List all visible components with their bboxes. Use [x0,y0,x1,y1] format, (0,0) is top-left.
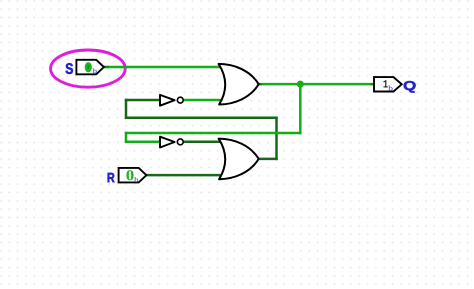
wire net Q feedback short vertical [125,133,128,142]
not-gate INV2 triangle [160,137,175,148]
wire net Qbar feedback into INV1 input [126,99,160,102]
highlight ellipse around pin S [51,50,126,87]
wire INV1 output to OR1 input B (high) [184,99,223,102]
label Q [404,81,416,93]
wire net Qbar feedback short vertical up [125,100,128,118]
value 1 of pin Q [384,80,388,87]
not-gate INV2 bubble [177,139,183,145]
wire net Q feedback into INV2 input [126,141,160,144]
wire R to OR2 input B (net R, low) [146,174,223,177]
wire S to OR1 input A (net S, high) [104,66,223,69]
input pin R pentagon [119,168,147,183]
not-gate INV1 bubble [177,97,183,103]
wire INV2 output to OR2 input A (low) [184,141,223,144]
wire OR2 output horizontal (net Qbar, low) [258,158,276,161]
not-gate INV1 triangle [160,95,175,106]
subscript b of pin S value [93,69,97,74]
subscript b of pin Q value [388,86,392,91]
value 0 of pin S (green, nearly solid) [85,62,92,72]
wire OR1 output to pin Q (net Q, high) [258,83,373,86]
wire net Q vertical from junction down [299,84,302,133]
pin S output port nub [105,66,110,68]
junction node Q [297,81,304,88]
or-gate OR1 (top) [219,64,259,105]
subscript b of pin R value [134,177,138,182]
wire net Q feedback horizontal [126,132,300,135]
label S [66,63,73,74]
or-gate OR1 output port nub [259,83,262,85]
value 0 of pin R [126,170,133,180]
input pin S pentagon [76,60,104,75]
or-gate OR2 (bottom) [219,139,259,180]
pin Q input port nub [371,83,374,85]
label R [108,173,115,182]
wire net Qbar feedback horizontal [126,117,277,120]
output pin Q pentagon [374,77,402,91]
wire net Qbar feedback vertical up [275,118,278,159]
